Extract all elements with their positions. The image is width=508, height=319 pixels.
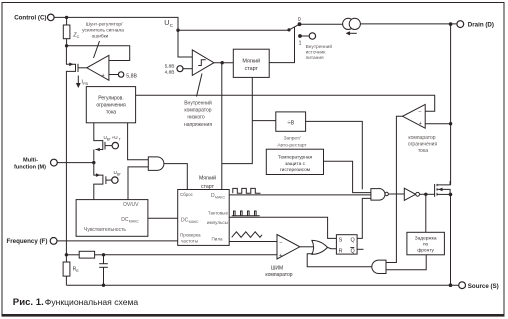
svg-text:+: + (419, 121, 422, 127)
svg-text:Q: Q (351, 248, 355, 254)
wire AND output to oscillator soft start port (164, 164, 187, 190)
wire UVLO output down to oscillator (221, 63, 223, 190)
svg-text:Q: Q (351, 238, 355, 244)
svg-text:+: + (102, 73, 105, 79)
wire M pin to bus (57, 162, 94, 164)
or gate (312, 240, 328, 254)
svg-text:−: − (279, 240, 282, 246)
wire UVLO output (214, 62, 233, 64)
svg-text:Мягкий: Мягкий (199, 175, 216, 182)
svg-text:U: U (164, 20, 169, 27)
svg-text:R: R (339, 248, 343, 254)
svg-text:S: S (339, 238, 343, 244)
wire delay box to AND input (386, 255, 426, 270)
label disable auto-restart (277, 136, 307, 149)
svg-text:МАКС: МАКС (215, 196, 225, 200)
wire OV/UV output to oscillator DCmax (148, 217, 178, 219)
wire frequency to oscillator (57, 240, 178, 242)
svg-text:Задержка: Задержка (415, 236, 437, 242)
label current limit comparator (408, 135, 438, 154)
waveform clock pulses (232, 211, 260, 216)
node control junction (65, 16, 68, 19)
node MOSFET source junction (449, 193, 453, 197)
wire drain vertical (450, 24, 452, 185)
svg-text:ограничения: ограничения (96, 103, 126, 109)
pin Source (S) (459, 282, 499, 290)
wire CL+ input (425, 123, 450, 125)
comparator PWM (277, 235, 300, 260)
svg-text:по: по (423, 243, 429, 248)
svg-text:ВГ: ВГ (107, 137, 111, 141)
svg-text:1: 1 (299, 41, 302, 47)
wire AND output to OR bottom input (307, 254, 372, 267)
svg-text:защита с: защита с (285, 162, 306, 167)
wire clock output to latch S (229, 217, 336, 238)
svg-text:+: + (279, 253, 282, 259)
svg-text:усилитель сигнала: усилитель сигнала (82, 29, 124, 34)
svg-text:компаратор: компаратор (184, 108, 211, 114)
label shunt regulator / error amplifier (82, 22, 124, 40)
svg-text:Рис. 1.: Рис. 1. (13, 297, 44, 308)
svg-text:Т: Т (119, 137, 121, 141)
svg-text:ШИМ: ШИМ (271, 265, 283, 271)
box OV/UV DCmax sensitivity (76, 200, 148, 237)
inverter gate driver (404, 188, 419, 200)
wire top rail to current source (300, 23, 343, 25)
svg-text:импульсы: импульсы (207, 220, 228, 225)
wire OR output to latch R (328, 247, 337, 248)
box soft start (233, 49, 269, 77)
wire UC rail to switch (178, 29, 289, 31)
svg-text:DC: DC (181, 218, 189, 224)
current arrow IFB (76, 76, 89, 89)
wire latch Q to NAND (357, 198, 371, 238)
thick bottom bar (2, 314, 505, 317)
svg-text:0: 0 (298, 17, 301, 23)
svg-text:МАКС: МАКС (189, 220, 199, 224)
svg-text:÷8: ÷8 (287, 120, 294, 126)
svg-text:частоты: частоты (181, 239, 198, 244)
wire source rail (66, 284, 459, 286)
leader line to error amp (94, 41, 100, 58)
svg-text:ошибки: ошибки (92, 34, 109, 40)
node source junction (449, 283, 453, 287)
label internal power source (306, 43, 333, 61)
wire AND lower input from OV/UV (128, 167, 148, 200)
box divide by 8 counter (276, 112, 306, 131)
svg-text:Сброс: Сброс (180, 192, 194, 197)
wire branch to divide-by-8 (252, 120, 275, 122)
svg-text:Пила: Пила (211, 237, 223, 242)
node gate junction (424, 193, 427, 196)
svg-text:фронту: фронту (417, 248, 434, 254)
wire current limit adjust output to comparator (136, 95, 435, 111)
wire RC to PWM + input (104, 254, 278, 256)
svg-text:низкого: низкого (187, 115, 205, 121)
waveform sawtooth (232, 232, 262, 238)
node cap top junction (102, 253, 105, 256)
svg-text:DC: DC (121, 217, 129, 223)
node UC junction (176, 29, 179, 32)
node cap bottom junction (102, 284, 105, 287)
op-amp U error amplifier (points left) (87, 55, 109, 80)
wire gate node to delay box (425, 194, 427, 232)
resistor RE (63, 255, 79, 285)
svg-text:гистерезисом: гистерезисом (280, 168, 310, 173)
resistor horizontal at F network (66, 251, 103, 258)
wire control rail (54, 17, 178, 30)
comparator UVLO (internal low-voltage comparator) (178, 30, 214, 75)
svg-text:источник: источник (306, 51, 327, 56)
node CL+ junction (449, 122, 452, 125)
wire MOSFET source down to source rail (450, 194, 452, 285)
svg-text:Регулиров.: Регулиров. (98, 95, 123, 101)
wire sawtooth output to PWM comparator (229, 241, 277, 243)
node drain junction (449, 22, 453, 26)
label internal low voltage comparator (184, 74, 212, 128)
wire error amp feedback loop (67, 46, 130, 61)
node RE junction (65, 253, 68, 256)
wire soft start bottom branch (222, 77, 253, 163)
svg-text:C: C (77, 35, 80, 39)
latch SR flip-flop (336, 235, 357, 255)
svg-text:Мягкий: Мягкий (242, 57, 260, 64)
node M junction (92, 161, 95, 164)
svg-text:function (M): function (M) (14, 164, 46, 170)
pin Multi-function (M) (14, 158, 57, 171)
box current limit adjust (86, 87, 135, 123)
label UC (164, 20, 173, 28)
wire thermal output to NAND (324, 161, 371, 192)
label soft start port (199, 175, 216, 191)
transistor feedback MOSFET at control bus (66, 46, 86, 160)
resistor Zc (63, 17, 79, 45)
svg-text:Авто-рестарт: Авто-рестарт (277, 143, 307, 149)
box leading edge delay (407, 232, 445, 255)
pin Frequency (F) (6, 238, 57, 246)
svg-text:Source (S): Source (S) (468, 283, 499, 290)
svg-text:−: − (418, 109, 421, 115)
wire NAND output to driver (388, 193, 404, 195)
and gate current limit (points left) (372, 260, 386, 273)
svg-text:Функциональная схема: Функциональная схема (45, 297, 139, 307)
box oscillator (178, 190, 230, 246)
wire latch Qbar stub (357, 248, 363, 250)
svg-text:тока: тока (418, 148, 428, 154)
wire CL comparator output down to AND (386, 116, 403, 262)
current source (internal supply) (343, 18, 361, 35)
svg-text:5,8В: 5,8В (165, 64, 175, 70)
svg-text:Проверка: Проверка (180, 232, 201, 237)
svg-text:ВГ: ВГ (117, 172, 121, 176)
svg-text:Control (C): Control (C) (14, 15, 46, 22)
svg-text:Drain (D): Drain (D) (468, 22, 494, 29)
and gate M-pin (148, 157, 164, 171)
transistor power MOSFET (435, 181, 451, 197)
svg-text:питания: питания (306, 56, 324, 61)
svg-text:Тактовые: Тактовые (208, 211, 229, 216)
reference 5,8V at + input (109, 72, 138, 80)
label PWM comparator (265, 265, 292, 278)
svg-text:Внутренний: Внутренний (184, 100, 212, 107)
svg-text:5,8В: 5,8В (126, 73, 137, 79)
svg-text:Frequency (F): Frequency (F) (6, 238, 47, 245)
wire Dmax output to NAND (229, 194, 371, 196)
svg-text:+U: +U (112, 135, 118, 140)
svg-text:Температурная: Температурная (278, 155, 313, 161)
svg-text:OV/UV: OV/UV (123, 202, 139, 208)
wire PWM output to OR (300, 246, 314, 248)
svg-text:Шунт-регулятор/: Шунт-регулятор/ (86, 22, 123, 28)
svg-text:тока: тока (106, 110, 116, 116)
svg-text:компаратор: компаратор (265, 272, 292, 278)
nand gate (371, 189, 389, 201)
waveform Dmax square wave (233, 188, 261, 193)
node below Zc (65, 44, 68, 47)
svg-text:компаратор: компаратор (408, 135, 435, 141)
svg-text:4,8В: 4,8В (165, 69, 175, 75)
wire CLA box bottom to AND gate (128, 123, 149, 160)
box thermal shutdown with hysteresis (266, 149, 323, 174)
svg-text:Запрет/: Запрет/ (284, 136, 302, 142)
svg-text:Чувствительность: Чувствительность (84, 227, 126, 233)
pin Control (C) (14, 14, 54, 21)
svg-text:МАКС: МАКС (129, 219, 139, 223)
svg-text:Multi-: Multi- (23, 158, 38, 164)
transistor M-pin upper MOSFET (94, 123, 121, 161)
node UVLO output (221, 61, 224, 64)
capacitor at F pin network (99, 255, 108, 285)
reference 5,8V 4,8V input (165, 64, 193, 76)
wire divide-by-8 output to NAND (306, 121, 363, 189)
wire soft start to switch (269, 27, 294, 63)
caption (13, 297, 139, 308)
wire left bus down (65, 160, 67, 255)
svg-text:старт: старт (245, 66, 259, 72)
svg-text:FB: FB (83, 82, 88, 86)
transistor M-pin lower MOSFET (94, 163, 121, 200)
comparator current limit (points left) (403, 104, 426, 128)
switch auto-restart (287, 17, 315, 47)
wire driver to gate (420, 193, 435, 195)
wire current source to drain node (360, 23, 460, 25)
pin Drain (D) (457, 21, 494, 29)
svg-text:ограничения: ограничения (408, 141, 438, 147)
svg-text:напряжения: напряжения (184, 122, 212, 128)
svg-text:Внутренний: Внутренний (306, 43, 333, 50)
